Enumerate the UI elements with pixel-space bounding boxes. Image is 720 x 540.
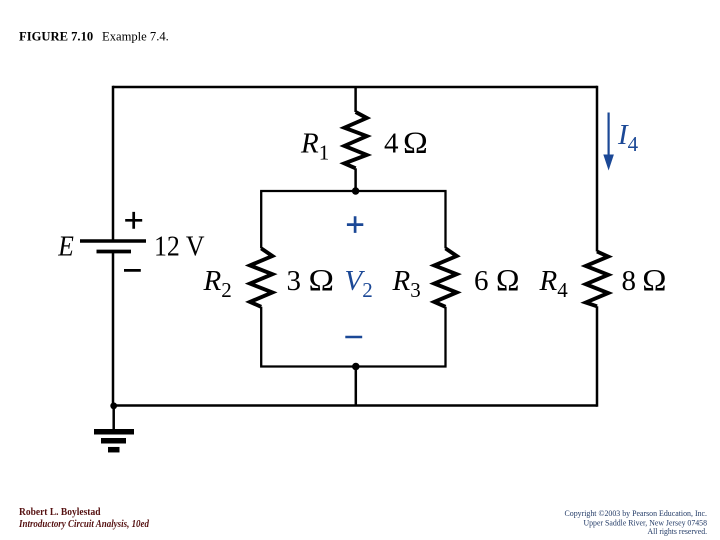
svg-text:R4: R4 xyxy=(539,265,569,302)
svg-text:Example 7.4.: Example 7.4. xyxy=(102,30,169,44)
svg-text:R2: R2 xyxy=(203,265,232,302)
battery minus sign xyxy=(124,269,141,272)
battery E plate long xyxy=(80,239,146,243)
wire right upper xyxy=(596,86,599,252)
node bottom junction dot xyxy=(352,363,360,371)
svg-text:I4: I4 xyxy=(617,119,639,156)
svg-text:Ω: Ω xyxy=(309,263,335,297)
plus sign V2 (blue) xyxy=(347,216,363,233)
battery plus sign xyxy=(125,212,142,229)
wire top xyxy=(113,86,597,89)
wire inner bottom to bottom xyxy=(355,367,358,406)
battery E plate short xyxy=(97,250,132,254)
svg-text:E: E xyxy=(57,232,73,263)
svg-text:Ω: Ω xyxy=(642,263,666,297)
ground junction dot xyxy=(110,402,117,409)
inner box (parallel section) xyxy=(260,191,447,367)
resistor R4 xyxy=(586,252,608,307)
wire left upper xyxy=(112,86,115,241)
resistor R2 xyxy=(250,248,272,306)
svg-text:R3: R3 xyxy=(392,265,421,302)
svg-text:12 V: 12 V xyxy=(154,232,205,263)
resistor R1 xyxy=(344,112,366,168)
wire left lower xyxy=(112,252,115,406)
node top junction dot xyxy=(352,187,359,194)
svg-text:3: 3 xyxy=(287,265,302,297)
wire R1 bottom xyxy=(354,168,357,191)
wire right lower xyxy=(596,306,599,406)
svg-text:FIGURE 7.10: FIGURE 7.10 xyxy=(19,30,93,44)
svg-text:Ω: Ω xyxy=(496,263,520,297)
svg-text:8: 8 xyxy=(622,265,637,297)
svg-text:Copyright ©2003 by Pearson Edu: Copyright ©2003 by Pearson Education, In… xyxy=(565,508,708,518)
ground symbol xyxy=(94,429,134,435)
svg-text:4: 4 xyxy=(384,128,399,160)
wire R1 top xyxy=(354,87,357,112)
resistor R3 xyxy=(434,248,456,306)
minus sign V2 (blue) xyxy=(345,336,362,339)
svg-text:6: 6 xyxy=(474,265,489,297)
svg-text:Ω: Ω xyxy=(403,126,428,160)
svg-text:R1: R1 xyxy=(300,128,329,165)
current arrow I4 (blue) xyxy=(607,113,609,157)
ground stub wire xyxy=(112,406,115,429)
svg-text:V2: V2 xyxy=(345,265,373,302)
svg-text:All rights reserved.: All rights reserved. xyxy=(648,526,708,536)
wire bottom xyxy=(113,404,597,407)
svg-text:Robert L. Boylestad: Robert L. Boylestad xyxy=(19,507,101,518)
svg-text:Introductory Circuit Analysis,: Introductory Circuit Analysis, 10ed xyxy=(18,519,150,530)
